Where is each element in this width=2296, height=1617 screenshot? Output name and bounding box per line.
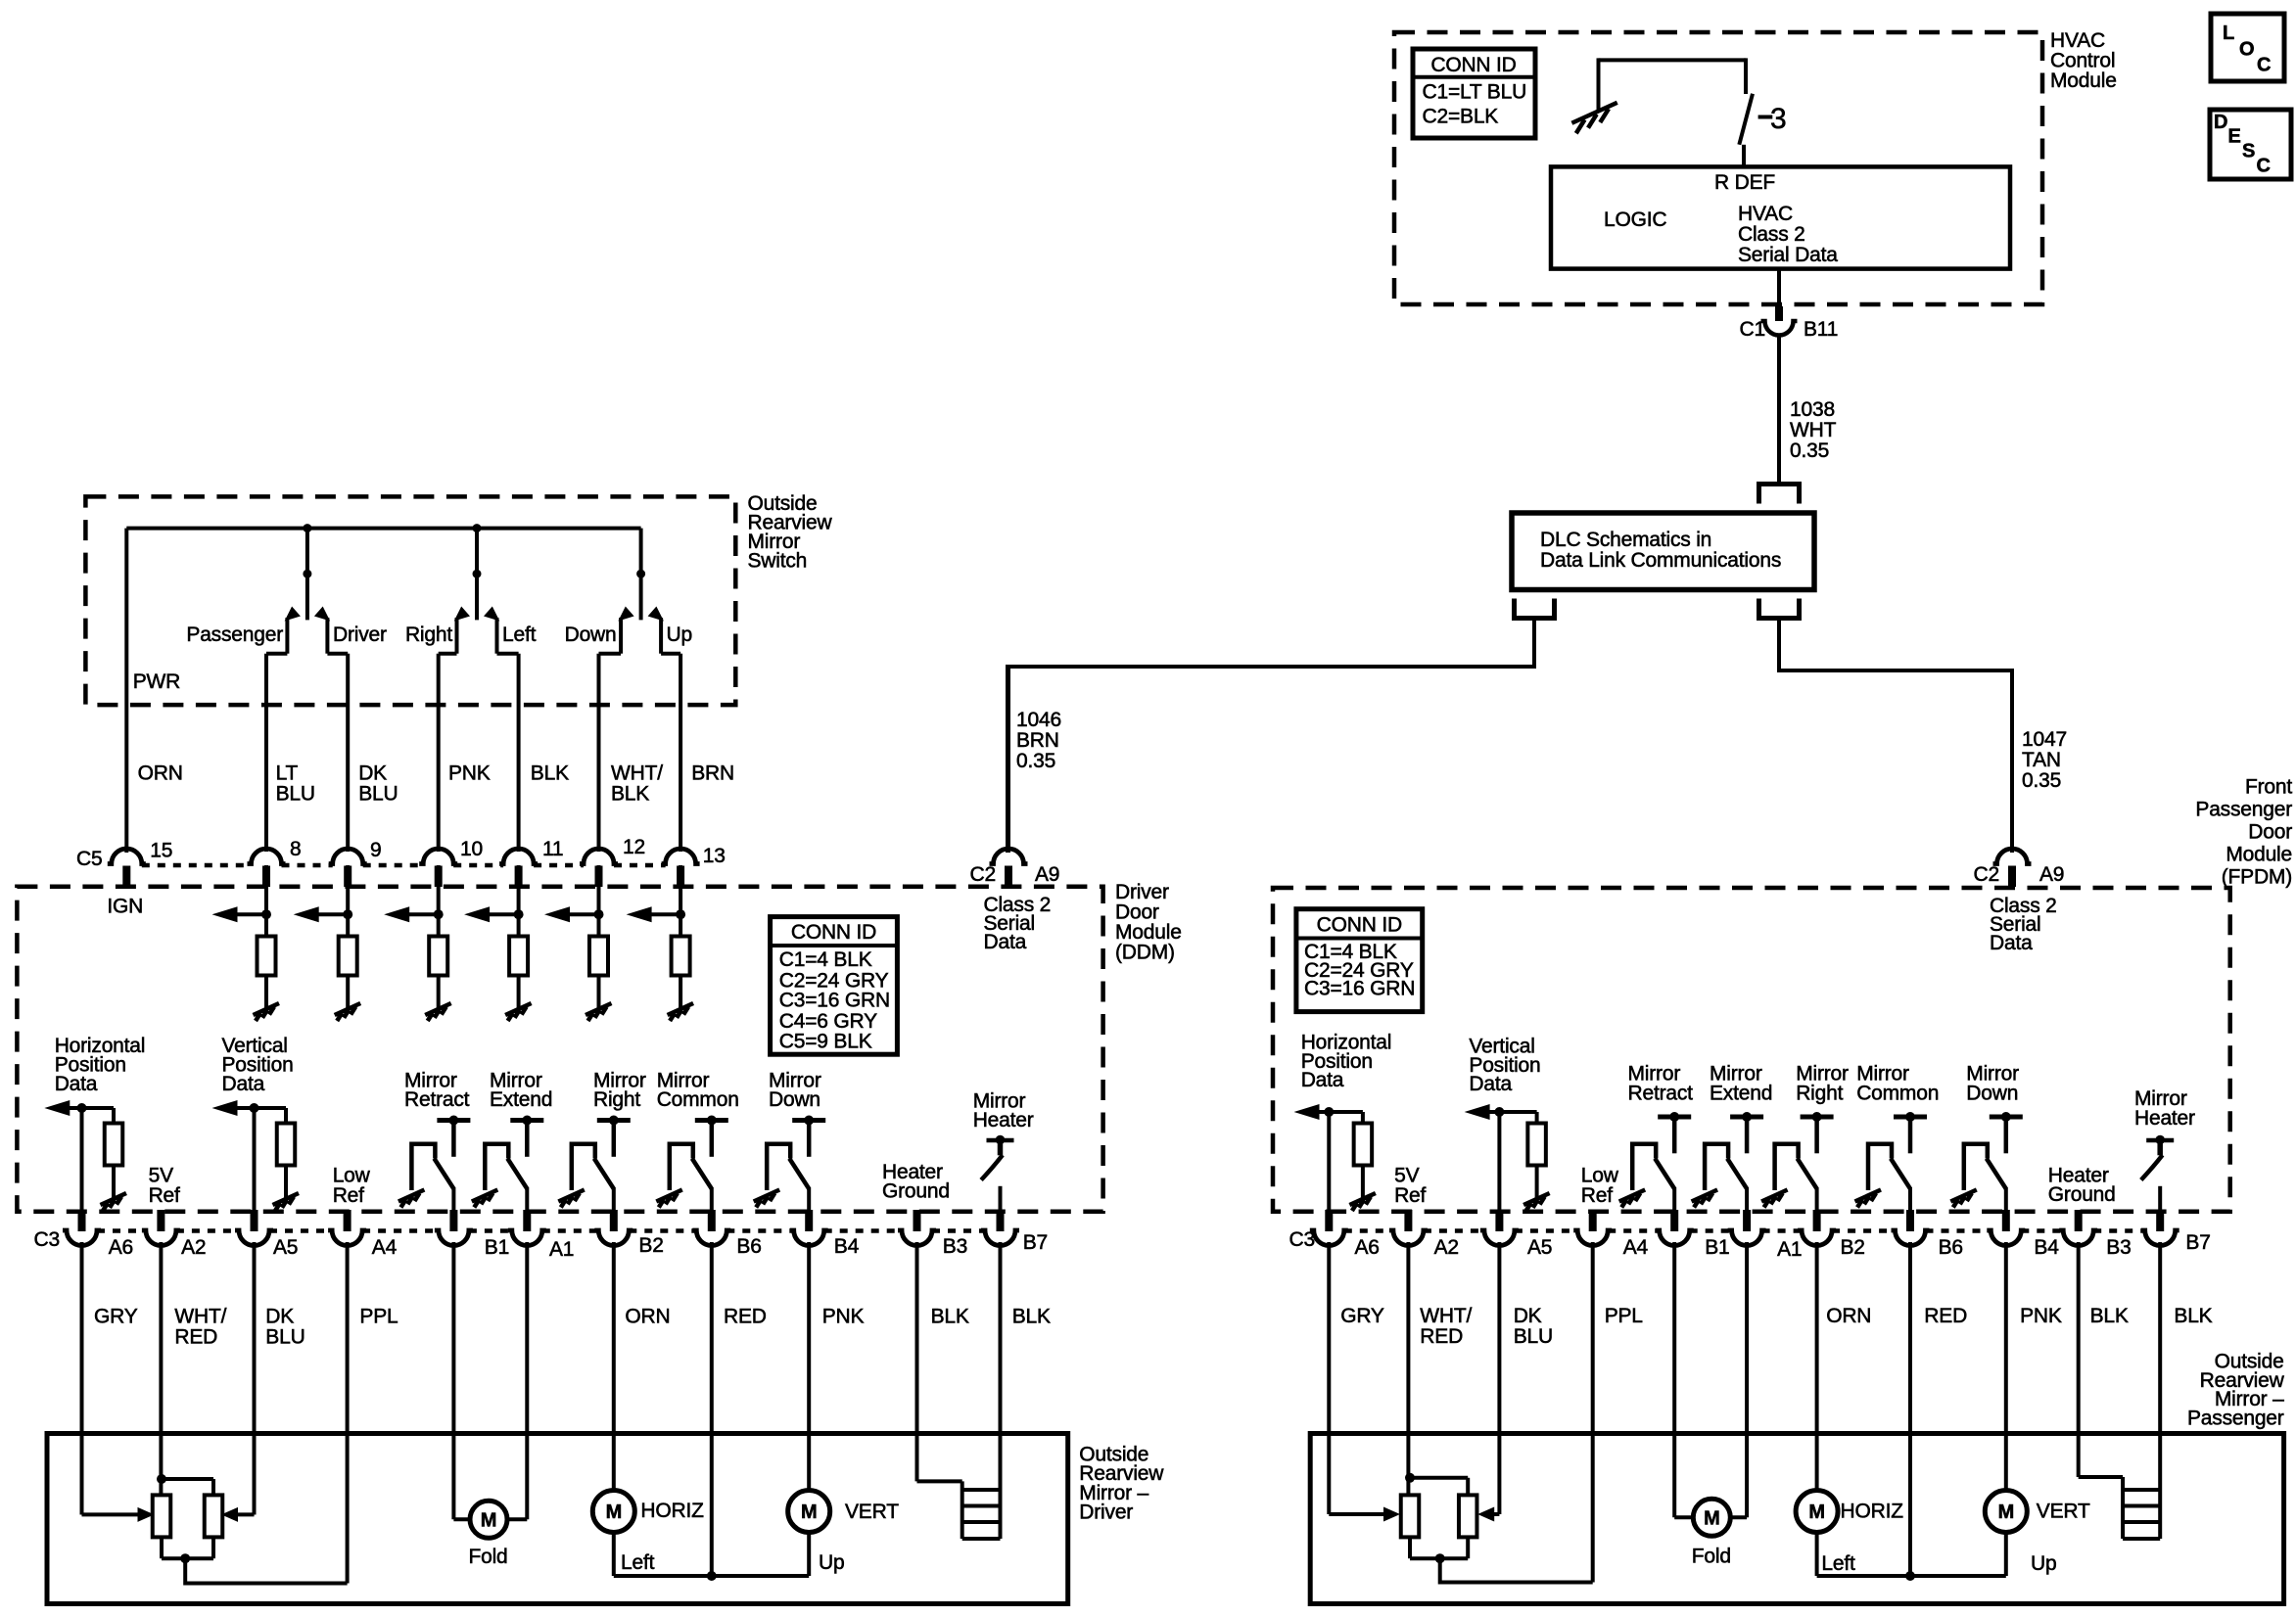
svg-text:PNK: PNK (822, 1306, 865, 1328)
svg-text:Up: Up (2031, 1552, 2056, 1575)
svg-text:Up: Up (819, 1551, 844, 1574)
svg-text:PPL: PPL (359, 1306, 398, 1328)
svg-text:12: 12 (623, 836, 645, 858)
svg-text:A9: A9 (2039, 863, 2064, 886)
svg-text:A1: A1 (549, 1238, 574, 1261)
svg-text:Front: Front (2245, 776, 2292, 799)
svg-text:A6: A6 (1355, 1236, 1380, 1259)
svg-text:B4: B4 (834, 1235, 860, 1258)
svg-text:DK: DK (1514, 1305, 1542, 1327)
svg-text:Left: Left (1821, 1552, 1855, 1575)
svg-text:Data: Data (1301, 1069, 1344, 1091)
svg-text:Passenger: Passenger (186, 624, 283, 646)
svg-text:Ref: Ref (1581, 1184, 1613, 1207)
svg-text:E: E (2228, 126, 2241, 148)
svg-text:B1: B1 (485, 1236, 509, 1259)
svg-text:M: M (606, 1501, 622, 1523)
svg-text:ORN: ORN (1826, 1305, 1871, 1327)
svg-text:Down: Down (1966, 1083, 2018, 1105)
svg-text:(DDM): (DDM) (1115, 942, 1175, 964)
svg-text:Right: Right (405, 624, 452, 646)
svg-text:C: C (2257, 55, 2271, 76)
svg-text:B2: B2 (1841, 1236, 1865, 1259)
svg-text:GRY: GRY (94, 1306, 138, 1328)
svg-text:Down: Down (565, 624, 617, 646)
svg-text:BLK: BLK (531, 762, 569, 785)
svg-text:Right: Right (593, 1088, 640, 1111)
svg-text:C1=4 BLK: C1=4 BLK (779, 948, 872, 971)
svg-text:10: 10 (460, 838, 483, 860)
svg-text:Ground: Ground (882, 1180, 950, 1203)
svg-text:C2=BLK: C2=BLK (1423, 106, 1499, 128)
svg-text:A2: A2 (181, 1236, 206, 1259)
svg-text:PNK: PNK (2020, 1305, 2062, 1327)
svg-text:C3=16 GRN: C3=16 GRN (1304, 978, 1415, 1000)
svg-text:M: M (1704, 1507, 1719, 1529)
svg-text:C5=9 BLK: C5=9 BLK (779, 1030, 872, 1052)
svg-text:Passenger: Passenger (2195, 799, 2292, 821)
svg-text:Data Link Communications: Data Link Communications (1540, 549, 1781, 572)
svg-text:IGN: IGN (107, 896, 143, 918)
svg-text:Module: Module (2050, 69, 2117, 92)
svg-text:A9: A9 (1035, 863, 1059, 886)
svg-text:Ref: Ref (1394, 1184, 1426, 1207)
svg-text:13: 13 (703, 845, 726, 867)
svg-text:S: S (2242, 141, 2255, 162)
svg-text:GRY: GRY (1340, 1305, 1384, 1327)
svg-text:Door: Door (2248, 821, 2292, 844)
svg-text:WHT/: WHT/ (611, 762, 663, 785)
svg-text:D: D (2214, 112, 2227, 133)
svg-text:BLU: BLU (358, 783, 398, 806)
svg-text:A2: A2 (1434, 1236, 1459, 1259)
svg-text:0.35: 0.35 (1790, 439, 1829, 462)
svg-text:Passenger: Passenger (2187, 1407, 2284, 1429)
svg-text:A1: A1 (1777, 1238, 1802, 1261)
svg-text:Switch: Switch (748, 550, 808, 573)
svg-text:Module: Module (2226, 844, 2292, 866)
svg-text:(FPDM): (FPDM) (2222, 866, 2292, 889)
svg-text:1047: 1047 (2022, 728, 2067, 751)
svg-text:HORIZ: HORIZ (640, 1500, 704, 1522)
svg-text:A5: A5 (273, 1236, 298, 1259)
svg-text:Driver: Driver (1079, 1501, 1133, 1524)
svg-text:Common: Common (657, 1088, 739, 1111)
svg-text:0.35: 0.35 (1016, 750, 1055, 772)
svg-text:BLK: BLK (2174, 1305, 2212, 1327)
svg-text:8: 8 (290, 838, 301, 860)
svg-text:C1=LT BLU: C1=LT BLU (1423, 81, 1527, 104)
svg-text:C2: C2 (1974, 863, 1999, 886)
svg-text:LOGIC: LOGIC (1604, 208, 1666, 231)
svg-text:C2: C2 (970, 863, 996, 886)
svg-text:HVAC: HVAC (1738, 203, 1793, 225)
svg-text:M: M (801, 1501, 817, 1523)
svg-text:DK: DK (358, 762, 387, 785)
svg-text:Data: Data (984, 931, 1027, 953)
svg-text:BLK: BLK (1012, 1306, 1051, 1328)
svg-text:Ref: Ref (333, 1184, 364, 1207)
svg-text:C3=16 GRN: C3=16 GRN (779, 990, 890, 1012)
svg-text:RED: RED (724, 1306, 767, 1328)
svg-text:WHT: WHT (1790, 419, 1837, 441)
svg-text:Extend: Extend (1710, 1083, 1772, 1105)
svg-text:DLC Schematics in: DLC Schematics in (1540, 529, 1711, 551)
svg-text:A6: A6 (109, 1236, 133, 1259)
svg-text:Ref: Ref (149, 1184, 180, 1207)
svg-text:VERT: VERT (2037, 1501, 2090, 1523)
svg-text:Data: Data (222, 1073, 265, 1095)
svg-text:BRN: BRN (691, 762, 734, 785)
svg-text:A4: A4 (1623, 1236, 1649, 1259)
svg-text:B6: B6 (736, 1235, 761, 1258)
svg-text:PNK: PNK (448, 762, 491, 785)
svg-text:BLU: BLU (265, 1326, 305, 1349)
svg-text:CONN ID: CONN ID (1317, 914, 1402, 937)
svg-text:9: 9 (370, 839, 381, 861)
svg-text:BLK: BLK (2090, 1305, 2129, 1327)
svg-text:DK: DK (265, 1306, 294, 1328)
svg-text:Right: Right (1796, 1083, 1843, 1105)
svg-text:1046: 1046 (1016, 709, 1061, 731)
svg-text:C3: C3 (34, 1228, 60, 1251)
svg-text:WHT/: WHT/ (1420, 1305, 1472, 1327)
svg-text:RED: RED (1924, 1305, 1967, 1327)
svg-text:B4: B4 (2034, 1236, 2059, 1259)
svg-text:1038: 1038 (1790, 398, 1835, 421)
svg-text:Serial Data: Serial Data (1738, 244, 1838, 266)
svg-text:Data: Data (1469, 1073, 1512, 1095)
svg-text:A5: A5 (1527, 1236, 1552, 1259)
svg-text:HORIZ: HORIZ (1841, 1501, 1904, 1523)
svg-text:Up: Up (667, 624, 692, 646)
svg-text:ORN: ORN (625, 1306, 670, 1328)
svg-text:L: L (2223, 23, 2234, 44)
svg-text:Heater: Heater (2134, 1107, 2195, 1130)
svg-text:Driver: Driver (333, 624, 387, 646)
svg-text:Retract: Retract (1628, 1083, 1694, 1105)
svg-text:ORN: ORN (138, 762, 183, 785)
svg-text:CONN ID: CONN ID (791, 921, 876, 944)
svg-text:C3: C3 (1289, 1228, 1315, 1251)
svg-text:Left: Left (621, 1551, 655, 1574)
svg-text:15: 15 (150, 839, 172, 861)
svg-text:RED: RED (1420, 1325, 1463, 1348)
svg-text:3: 3 (1770, 103, 1787, 135)
svg-text:TAN: TAN (2022, 749, 2061, 771)
svg-text:B6: B6 (1939, 1236, 1963, 1259)
svg-text:Fold: Fold (1692, 1546, 1731, 1568)
svg-text:BLU: BLU (1514, 1325, 1553, 1348)
svg-text:M: M (1808, 1501, 1824, 1523)
svg-text:LT: LT (276, 762, 299, 785)
svg-text:C: C (2257, 156, 2271, 177)
svg-text:B11: B11 (1804, 318, 1838, 341)
svg-text:R DEF: R DEF (1714, 171, 1775, 194)
svg-text:11: 11 (542, 838, 563, 860)
svg-text:BLU: BLU (276, 783, 315, 806)
svg-text:Fold: Fold (468, 1546, 507, 1568)
svg-text:Retract: Retract (404, 1088, 470, 1111)
svg-text:CONN ID: CONN ID (1430, 54, 1516, 76)
svg-text:O: O (2239, 39, 2254, 61)
svg-text:B2: B2 (638, 1234, 663, 1257)
svg-text:Heater: Heater (973, 1109, 1034, 1132)
svg-text:Data: Data (55, 1073, 98, 1095)
svg-text:M: M (1998, 1501, 2014, 1523)
svg-text:Common: Common (1856, 1083, 1939, 1105)
svg-text:RED: RED (174, 1326, 217, 1349)
svg-text:0.35: 0.35 (2022, 769, 2061, 792)
svg-text:B7: B7 (1023, 1231, 1048, 1254)
svg-text:Extend: Extend (490, 1088, 552, 1111)
svg-text:BLK: BLK (931, 1306, 969, 1328)
svg-text:B1: B1 (1705, 1236, 1729, 1259)
svg-text:BLK: BLK (611, 783, 649, 806)
svg-text:C5: C5 (76, 848, 102, 870)
svg-text:VERT: VERT (845, 1501, 899, 1523)
svg-text:Class 2: Class 2 (1738, 223, 1805, 246)
svg-text:Ground: Ground (2048, 1183, 2116, 1206)
svg-text:C1: C1 (1740, 318, 1765, 341)
svg-text:PWR: PWR (133, 670, 180, 693)
svg-text:A4: A4 (372, 1236, 398, 1259)
svg-text:Down: Down (769, 1088, 820, 1111)
svg-text:PPL: PPL (1605, 1305, 1643, 1327)
svg-text:WHT/: WHT/ (174, 1306, 226, 1328)
svg-text:B3: B3 (943, 1235, 967, 1258)
svg-text:BRN: BRN (1016, 729, 1059, 752)
svg-text:M: M (481, 1509, 496, 1531)
svg-text:B7: B7 (2185, 1231, 2210, 1254)
svg-text:Left: Left (502, 624, 537, 646)
svg-text:B3: B3 (2106, 1236, 2131, 1259)
svg-text:Data: Data (1990, 932, 2033, 954)
